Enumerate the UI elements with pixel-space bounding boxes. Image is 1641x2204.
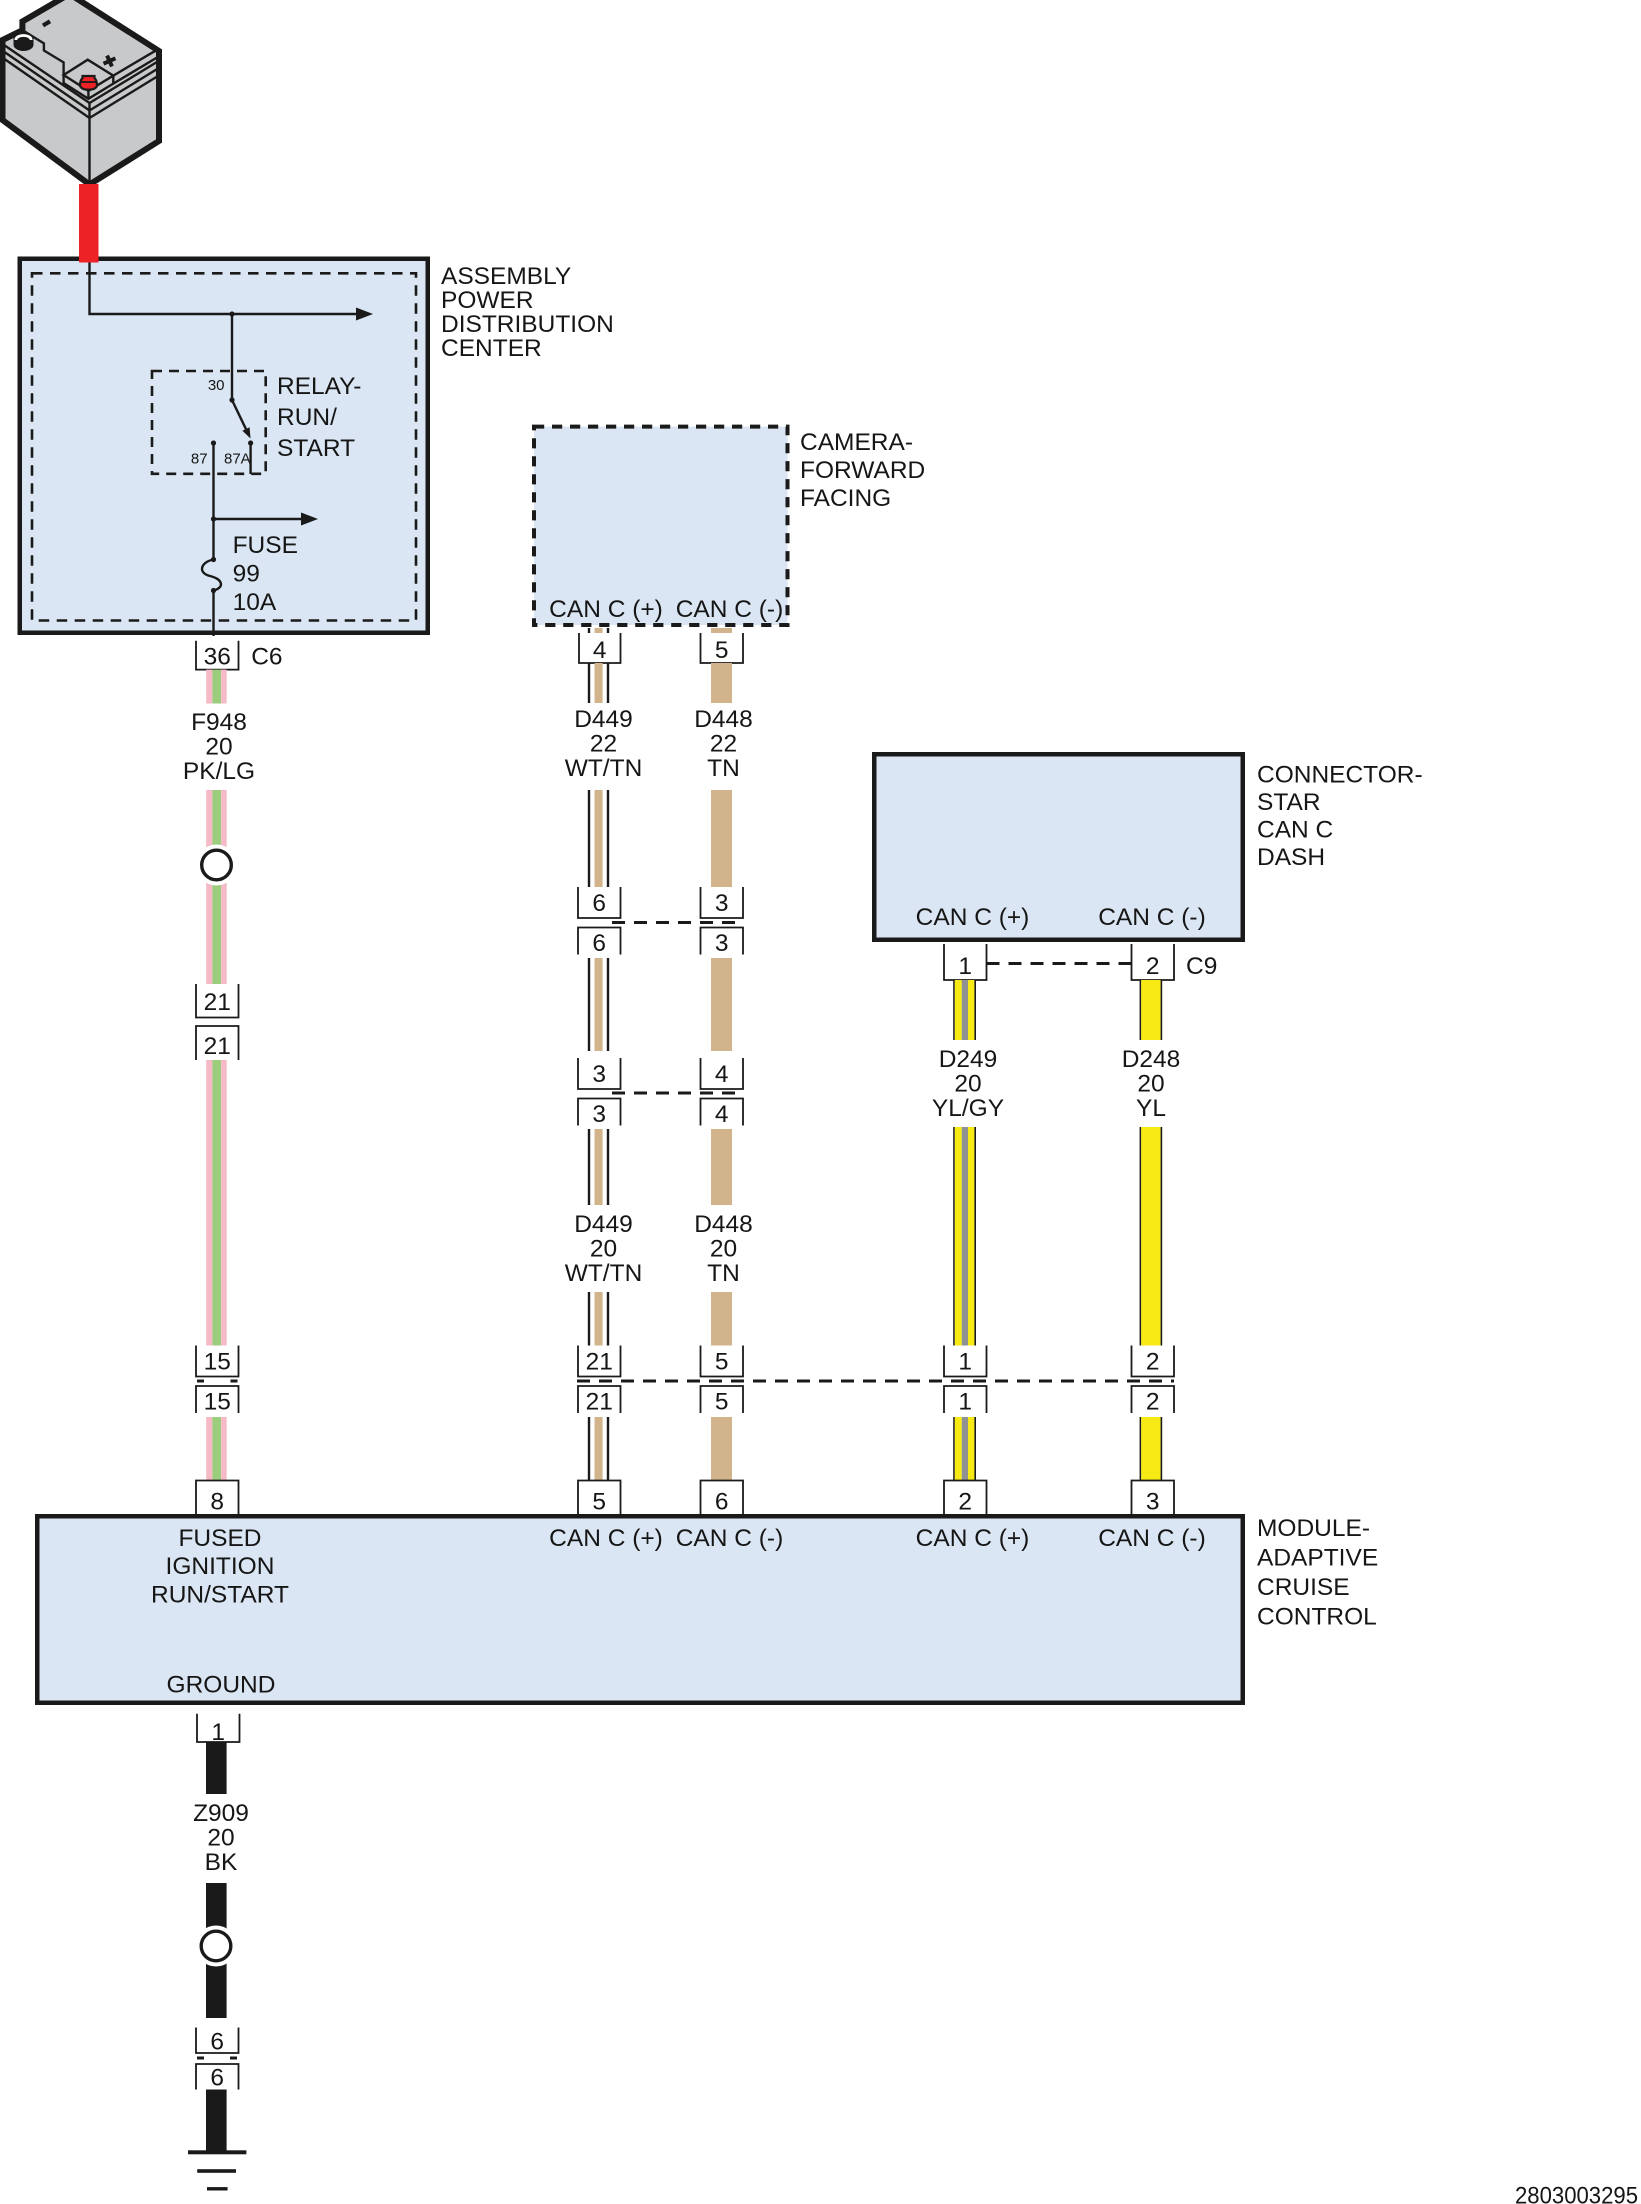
svg-text:22: 22 <box>590 731 617 758</box>
wire D448 segment 5 <box>711 1292 732 1346</box>
module pin 8 <box>196 1481 239 1516</box>
svg-text:DASH: DASH <box>1257 844 1325 871</box>
svg-text:6: 6 <box>592 890 606 917</box>
wire D448 segment 3 <box>711 958 732 1051</box>
inline connector pair 1 (D249) <box>944 1346 987 1377</box>
wire F948 segment 4 <box>206 1417 212 1481</box>
wire D249 20 YL/GY segment 1 <box>953 980 955 1040</box>
svg-text:20: 20 <box>710 1236 737 1263</box>
wire F948 20 PK/LG segment 1 <box>206 670 212 704</box>
relay switch arm arrow <box>232 400 246 429</box>
svg-text:1: 1 <box>211 1719 225 1746</box>
svg-text:D448: D448 <box>694 706 753 733</box>
svg-text:2: 2 <box>1146 1389 1160 1416</box>
wire: arrow feed to other circuits <box>214 518 303 520</box>
wire D449 segment 2 <box>588 790 590 887</box>
svg-text:20: 20 <box>207 1825 234 1852</box>
svg-text:START: START <box>277 435 355 462</box>
star pin 2 <box>1132 944 1175 980</box>
wire D448 segment 6 <box>711 1417 732 1481</box>
box: assembly power distribution center <box>20 259 428 633</box>
svg-text:CONNECTOR-: CONNECTOR- <box>1257 762 1423 789</box>
svg-text:CENTER: CENTER <box>441 335 542 362</box>
wire: down to relay pin 30 <box>231 314 233 400</box>
svg-text:3: 3 <box>715 930 729 957</box>
svg-text:CAN C (-): CAN C (-) <box>676 1525 784 1552</box>
svg-text:FUSED: FUSED <box>178 1525 261 1552</box>
svg-text:2: 2 <box>958 1489 972 1516</box>
svg-text:GROUND: GROUND <box>167 1672 276 1699</box>
inline connector pair 3 (D449) <box>578 1058 621 1089</box>
svg-text:2: 2 <box>1146 1349 1160 1376</box>
svg-text:36: 36 <box>204 644 231 671</box>
svg-text:ADAPTIVE: ADAPTIVE <box>1257 1545 1378 1572</box>
svg-text:CAN C (+): CAN C (+) <box>549 596 663 623</box>
svg-text:D448: D448 <box>694 1211 753 1238</box>
module pin 1 (ground) <box>197 1714 240 1742</box>
dashed stubs 6/6 <box>197 2057 237 2060</box>
svg-text:RELAY-: RELAY- <box>277 373 361 400</box>
svg-text:CAMERA-: CAMERA- <box>800 429 913 456</box>
wire: red battery positive cable <box>79 184 99 263</box>
module pin 6 <box>701 1481 744 1516</box>
svg-text:3: 3 <box>592 1101 606 1128</box>
node: junction on feed line <box>229 311 234 316</box>
wire D249 segment 2 <box>953 1127 955 1346</box>
camera pin 4 <box>579 633 621 663</box>
wire D449 segment 3 <box>588 958 590 1051</box>
svg-text:IGNITION: IGNITION <box>166 1553 275 1580</box>
dashed link 3-4 <box>612 1092 744 1095</box>
svg-text:20: 20 <box>590 1236 617 1263</box>
svg-text:1: 1 <box>958 953 972 980</box>
wire D449 22 WT/TN segment 1 <box>588 628 590 633</box>
inline connector pair 2 (D248) <box>1132 1346 1175 1377</box>
wire D249 segment 3 <box>953 1417 955 1481</box>
wire D448 segment 4 <box>711 1129 732 1205</box>
svg-text:TN: TN <box>707 755 740 782</box>
wire Z909 segment 2 <box>206 1883 227 1946</box>
svg-text:15: 15 <box>204 1349 231 1376</box>
relay RUN/START <box>152 371 266 474</box>
wire F948 segment 2 <box>206 790 212 865</box>
long dashed connector row link <box>577 1380 1174 1383</box>
svg-text:22: 22 <box>710 731 737 758</box>
svg-text:3: 3 <box>715 890 729 917</box>
box: connector star CAN C dash <box>874 754 1243 940</box>
relay pin 87 <box>211 440 216 445</box>
svg-text:D249: D249 <box>939 1046 998 1073</box>
dashed link pins 1-2 <box>987 962 1132 965</box>
dashed link 6-3 <box>612 921 744 924</box>
svg-text:4: 4 <box>715 1061 729 1088</box>
svg-text:21: 21 <box>586 1389 613 1416</box>
svg-text:4: 4 <box>593 637 607 664</box>
splice S1 on F948 <box>196 845 237 886</box>
svg-text:CAN C: CAN C <box>1257 817 1333 844</box>
wire D449 segment 4 <box>588 1129 590 1205</box>
ground symbol <box>188 2150 246 2154</box>
svg-text:PK/LG: PK/LG <box>183 758 255 785</box>
svg-text:6: 6 <box>210 2065 224 2092</box>
connector C6 pin 36 <box>196 641 239 670</box>
wire D248 segment 2 <box>1140 1127 1142 1346</box>
svg-text:MODULE-: MODULE- <box>1257 1515 1370 1542</box>
relay pin 87A <box>248 440 253 445</box>
svg-text:DISTRIBUTION: DISTRIBUTION <box>441 311 614 338</box>
svg-text:1: 1 <box>958 1349 972 1376</box>
node: junction above fuse <box>211 516 216 521</box>
svg-text:CRUISE: CRUISE <box>1257 1574 1350 1601</box>
svg-text:20: 20 <box>1137 1071 1164 1098</box>
svg-text:15: 15 <box>204 1389 231 1416</box>
module pin 3 <box>1132 1481 1175 1516</box>
svg-text:21: 21 <box>204 1033 231 1060</box>
svg-text:FORWARD: FORWARD <box>800 457 925 484</box>
svg-text:Z909: Z909 <box>193 1800 249 1827</box>
svg-text:1: 1 <box>958 1389 972 1416</box>
svg-text:POWER: POWER <box>441 287 534 314</box>
inline connector pair 6 (D449) <box>578 887 621 918</box>
inline connector pair 5 (D448) <box>701 1346 744 1377</box>
wire Z909 20 BK segment 1 <box>206 1742 227 1794</box>
svg-text:FUSE: FUSE <box>233 532 298 559</box>
svg-text:30: 30 <box>208 377 225 394</box>
wire D248 20 YL segment 1 <box>1140 980 1142 1040</box>
svg-text:2803003295: 2803003295 <box>1515 2183 1638 2204</box>
svg-text:CAN C (+): CAN C (+) <box>549 1525 663 1552</box>
svg-text:8: 8 <box>210 1489 224 1516</box>
svg-text:C6: C6 <box>251 644 282 671</box>
svg-text:WT/TN: WT/TN <box>565 755 643 782</box>
svg-text:99: 99 <box>233 561 260 588</box>
splice S2 on Z909 <box>196 1926 237 1967</box>
wire D448 22 TN segment 1 <box>711 628 732 633</box>
svg-text:D449: D449 <box>574 706 633 733</box>
wire D449 segment 5 <box>588 1292 590 1346</box>
svg-text:5: 5 <box>715 637 729 664</box>
svg-text:5: 5 <box>715 1349 729 1376</box>
wire F948 segment 3 <box>206 1060 212 1346</box>
wire Z909 segment 3 <box>206 2090 227 2153</box>
inline connector 15/15 on F948 <box>196 1346 239 1377</box>
inline connector 21/21 on F948 <box>196 984 239 1018</box>
svg-text:FACING: FACING <box>800 485 891 512</box>
svg-text:6: 6 <box>715 1489 729 1516</box>
wire D448 segment 2 <box>711 790 732 887</box>
star pin 1 <box>944 944 987 980</box>
svg-text:TN: TN <box>707 1260 740 1287</box>
svg-text:6: 6 <box>210 2029 224 2056</box>
box: module adaptive cruise control <box>37 1516 1243 1703</box>
inline connector pair 4 (D448) <box>701 1058 744 1089</box>
svg-text:CAN C (-): CAN C (-) <box>676 596 784 623</box>
svg-text:5: 5 <box>715 1389 729 1416</box>
svg-text:CONTROL: CONTROL <box>1257 1604 1377 1631</box>
svg-text:YL/GY: YL/GY <box>932 1095 1004 1122</box>
svg-text:D248: D248 <box>1122 1046 1181 1073</box>
svg-text:CAN C (-): CAN C (-) <box>1098 1525 1206 1552</box>
svg-text:RUN/START: RUN/START <box>151 1581 289 1608</box>
wire: battery feed into PDC with arrow <box>90 256 358 314</box>
wire D449 segment 6 <box>588 1417 590 1481</box>
svg-text:ASSEMBLY: ASSEMBLY <box>441 263 571 290</box>
module pin 5 <box>578 1481 621 1516</box>
svg-text:BK: BK <box>205 1849 238 1876</box>
svg-text:CAN C (+): CAN C (+) <box>916 1525 1030 1552</box>
svg-text:STAR: STAR <box>1257 789 1321 816</box>
svg-text:D449: D449 <box>574 1211 633 1238</box>
module pin 2 <box>944 1481 987 1516</box>
svg-text:5: 5 <box>592 1489 606 1516</box>
svg-text:21: 21 <box>204 989 231 1016</box>
svg-text:87A: 87A <box>224 451 251 468</box>
svg-text:87: 87 <box>191 451 208 468</box>
svg-text:6: 6 <box>592 930 606 957</box>
svg-text:F948: F948 <box>191 709 247 736</box>
fuse 99 10A <box>212 519 214 560</box>
svg-text:CAN C (+): CAN C (+) <box>916 904 1030 931</box>
svg-text:RUN/: RUN/ <box>277 404 337 431</box>
inline connector pair 21 (D449) <box>578 1346 621 1377</box>
svg-text:YL: YL <box>1136 1095 1166 1122</box>
box: camera forward facing <box>534 427 788 625</box>
svg-text:20: 20 <box>954 1071 981 1098</box>
svg-text:21: 21 <box>586 1349 613 1376</box>
dashed stubs 15/15 <box>197 1380 238 1383</box>
svg-text:4: 4 <box>715 1101 729 1128</box>
svg-text:3: 3 <box>1146 1489 1160 1516</box>
wire D248 segment 3 <box>1140 1417 1142 1481</box>
svg-text:2: 2 <box>1146 953 1160 980</box>
camera pin 5 <box>701 633 744 663</box>
svg-text:20: 20 <box>205 734 232 761</box>
inline connector pair 3 (D448) <box>701 887 744 918</box>
battery B+ <box>3 0 160 185</box>
svg-text:3: 3 <box>592 1061 606 1088</box>
svg-text:CAN C (-): CAN C (-) <box>1098 904 1206 931</box>
inline connector 6/6 on Z909 <box>196 2028 239 2054</box>
svg-text:C9: C9 <box>1186 953 1217 980</box>
svg-text:WT/TN: WT/TN <box>565 1260 643 1287</box>
svg-text:10A: 10A <box>233 589 277 616</box>
